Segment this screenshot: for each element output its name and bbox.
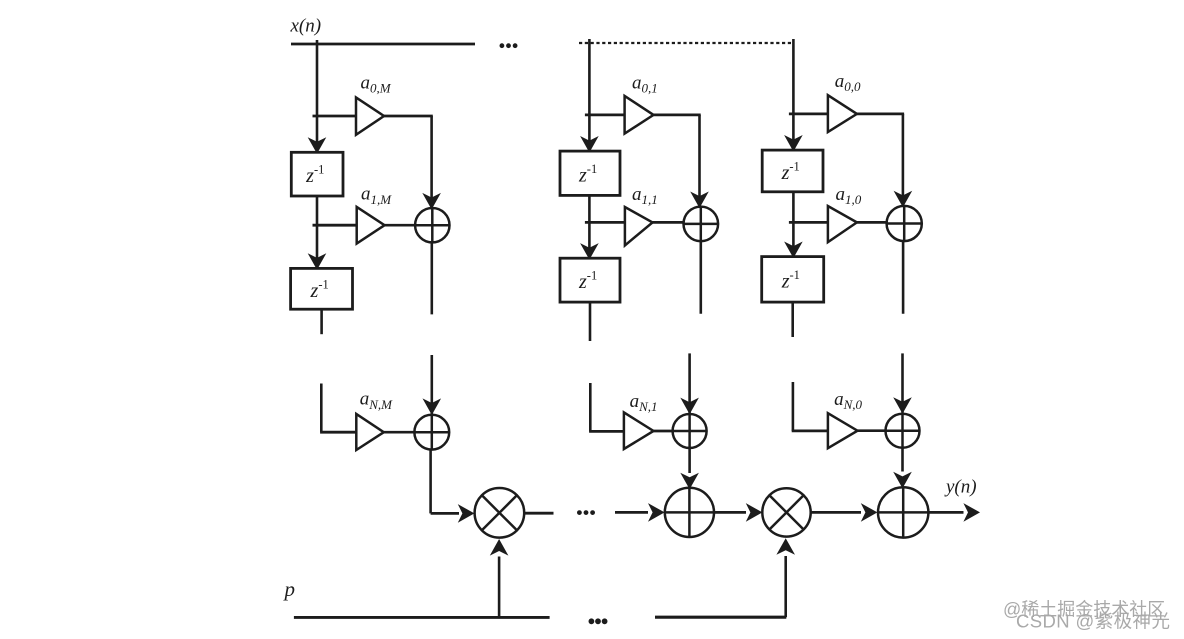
arrow into stage adder 1 left [648,503,665,522]
svg-text:CSDN @紫极神光: CSDN @紫极神光 [1016,611,1170,632]
stage adder 0 (large plus circle) [878,487,928,537]
multiplier 1 (circle with X) [762,488,810,536]
label a1,M [361,184,392,207]
wire column 0 main vertical from top line [792,39,795,150]
arrow into stage adder 1 top [680,473,699,490]
arrow into row N adder column 0 [893,397,912,414]
wire branch to gain a0,1 [585,114,625,117]
watermark line 2 [1016,611,1170,632]
wire adder output downward column 1 [699,242,702,314]
node p input label [283,577,296,601]
wire L-stub into gain aN,M [320,384,356,433]
svg-text:a1,M: a1,M [361,184,392,207]
ellipsis mid between multiplier M and adder stage 1 [577,510,595,515]
wire gain a0,M output to adder drop [384,116,433,210]
label z-1 no.2 column 1 [578,269,597,294]
wire column 1 main vertical from top line [588,39,591,151]
wire y(n) output from stage adder 0 [928,511,963,514]
wire adder output downward column M [430,243,433,315]
node y(n) output label [944,477,977,498]
wire L-stub into gain aN,0 [792,382,828,431]
wire resuming vertical into row N column 1 [688,353,691,413]
wire adder N1 down to stage adder 1 [688,448,691,473]
wire column M main vertical from top line [316,40,319,152]
wire branch to gain a0,0 [789,113,828,116]
wire gain a1,1 output to adder [653,221,684,224]
arrow into delay z-1 box 1 column M [308,137,327,154]
ellipsis top between x(n) line and dashed line [500,43,518,48]
delay box z-1 no.2 column 0 [762,257,824,303]
arrow into multiplier M [458,504,475,523]
svg-text:a0,1: a0,1 [632,73,658,96]
label z-1 no.2 column 0 [781,268,800,293]
wire resuming vertical into row N column M [430,355,433,414]
wire gain aN,1 output to adder [654,430,673,433]
delay box z-1 no.1 column M [291,152,343,196]
svg-text:y(n): y(n) [944,477,977,498]
wire adder NM down and right into multiplier M [431,450,459,514]
arrow into adder top column 1 [690,192,709,209]
wire L-stub into gain aN,1 [589,383,624,431]
ellipsis bottom between p line segments [589,618,608,624]
arrow up into multiplier 1 [776,538,795,555]
arrow output y(n) [963,503,980,522]
stage adder 1 (large plus circle) [665,488,714,537]
adder row N column 0 [886,414,920,448]
arrow into delay z-1 box 2 column 1 [580,243,599,260]
wire x(n) top horizontal [291,43,475,46]
svg-text:x(n): x(n) [290,16,322,37]
delay box z-1 no.2 column 1 [560,258,620,302]
wire branch to gain a1,1 [585,221,625,224]
adder row1 column 0 [887,206,922,241]
label z-1 no.1 column 1 [578,162,597,187]
wire branch to gain a0,M [313,115,357,118]
arrow into stage adder 0 left [861,503,878,522]
delay box z-1 no.2 column M [291,268,353,309]
wire gain a1,0 output to adder [857,221,887,224]
arrow into delay z-1 box 2 column 0 [784,242,803,259]
gain triangle a1,1 [625,207,653,245]
label a1,0 [836,184,862,207]
arrow into delay z-1 box 1 column 1 [580,136,599,153]
arrow into delay z-1 box 1 column 0 [784,135,803,152]
wire between delay boxes column M [316,196,319,268]
wire branch to gain a1,M [313,224,357,227]
wire gain a0,0 output to adder drop [857,114,904,208]
label z-1 no.1 column 0 [781,159,800,184]
arrow into row N adder column 1 [680,398,699,415]
arrow into row N adder column M [423,398,442,415]
adder row1 column M [415,208,449,242]
svg-text:aN,1: aN,1 [630,391,658,414]
wire bottom line column 1 with vertical arrow into multiplier 1 [655,556,786,617]
label a0,M [361,72,392,95]
wire between delay boxes column 0 [792,192,795,257]
watermark line 1 [1003,600,1165,620]
arrow into multiplier 1 [746,503,763,522]
svg-text:a0,0: a0,0 [835,71,861,94]
gain triangle a1,0 [828,206,857,242]
node x(n) input label [290,16,322,37]
wire branch to gain a1,0 [789,221,828,224]
svg-text:aN,0: aN,0 [834,389,862,412]
wire top dashed horizontal [579,42,794,44]
arrow into adder top column 0 [894,191,913,208]
gain triangle aN,0 [828,413,858,448]
wire p bottom horizontal [294,616,550,619]
adder row N column 1 [673,414,707,448]
wire multiplier M output [524,512,553,515]
wire gain aN,0 output to adder [858,429,886,432]
gain triangle a0,M [356,98,384,135]
label a1,1 [632,184,658,207]
label aN,1 [630,391,658,414]
label aN,M [360,389,393,412]
svg-text:a1,0: a1,0 [836,184,862,207]
svg-text:aN,M: aN,M [360,389,393,412]
label a0,0 [835,71,861,94]
label a0,1 [632,73,658,96]
delay box z-1 no.1 column 0 [762,150,823,192]
wire into stage adder 1 from left [615,511,648,514]
wire multiplier 1 output to stage adder 0 [811,511,861,514]
wire adder output downward column 0 [902,242,905,314]
label z-1 no.2 column M [310,277,329,302]
p line vertical arrow into multiplier M [490,539,509,617]
svg-text:p: p [283,577,296,601]
wire gain a1,M output to adder [385,224,416,227]
gain triangle a0,0 [828,95,857,132]
wire gain a0,1 output to adder drop [654,115,701,209]
gain triangle aN,M [356,414,384,450]
svg-text:a1,1: a1,1 [632,184,658,207]
multiplier M (circle with X) [475,488,525,538]
adder row1 column 1 [684,207,719,242]
wire resuming vertical into row N column 0 [901,353,904,412]
wire stage adder 1 output to multiplier 1 [714,511,746,514]
gain triangle aN,1 [624,412,654,449]
wire stub below delay box 2 column M [320,309,323,335]
wire between delay boxes column 1 [588,195,591,258]
label aN,0 [834,389,862,412]
gain triangle a1,M [357,207,385,244]
wire gain aN,M output to adder [384,431,415,434]
label z-1 no.1 column M [305,163,324,188]
arrow into adder top column M [422,193,441,210]
adder row N column M [414,415,449,450]
wire stub below delay box 2 column 1 [589,302,592,341]
arrow into delay z-1 box 2 column M [308,253,327,270]
wire adder N0 down to stage adder 0 [901,448,904,472]
svg-text:a0,M: a0,M [361,72,392,95]
wire stub below delay box 2 column 0 [791,302,794,337]
delay box z-1 no.1 column 1 [560,151,620,195]
arrow into stage adder 0 top [893,472,912,489]
gain triangle a0,1 [625,96,654,134]
